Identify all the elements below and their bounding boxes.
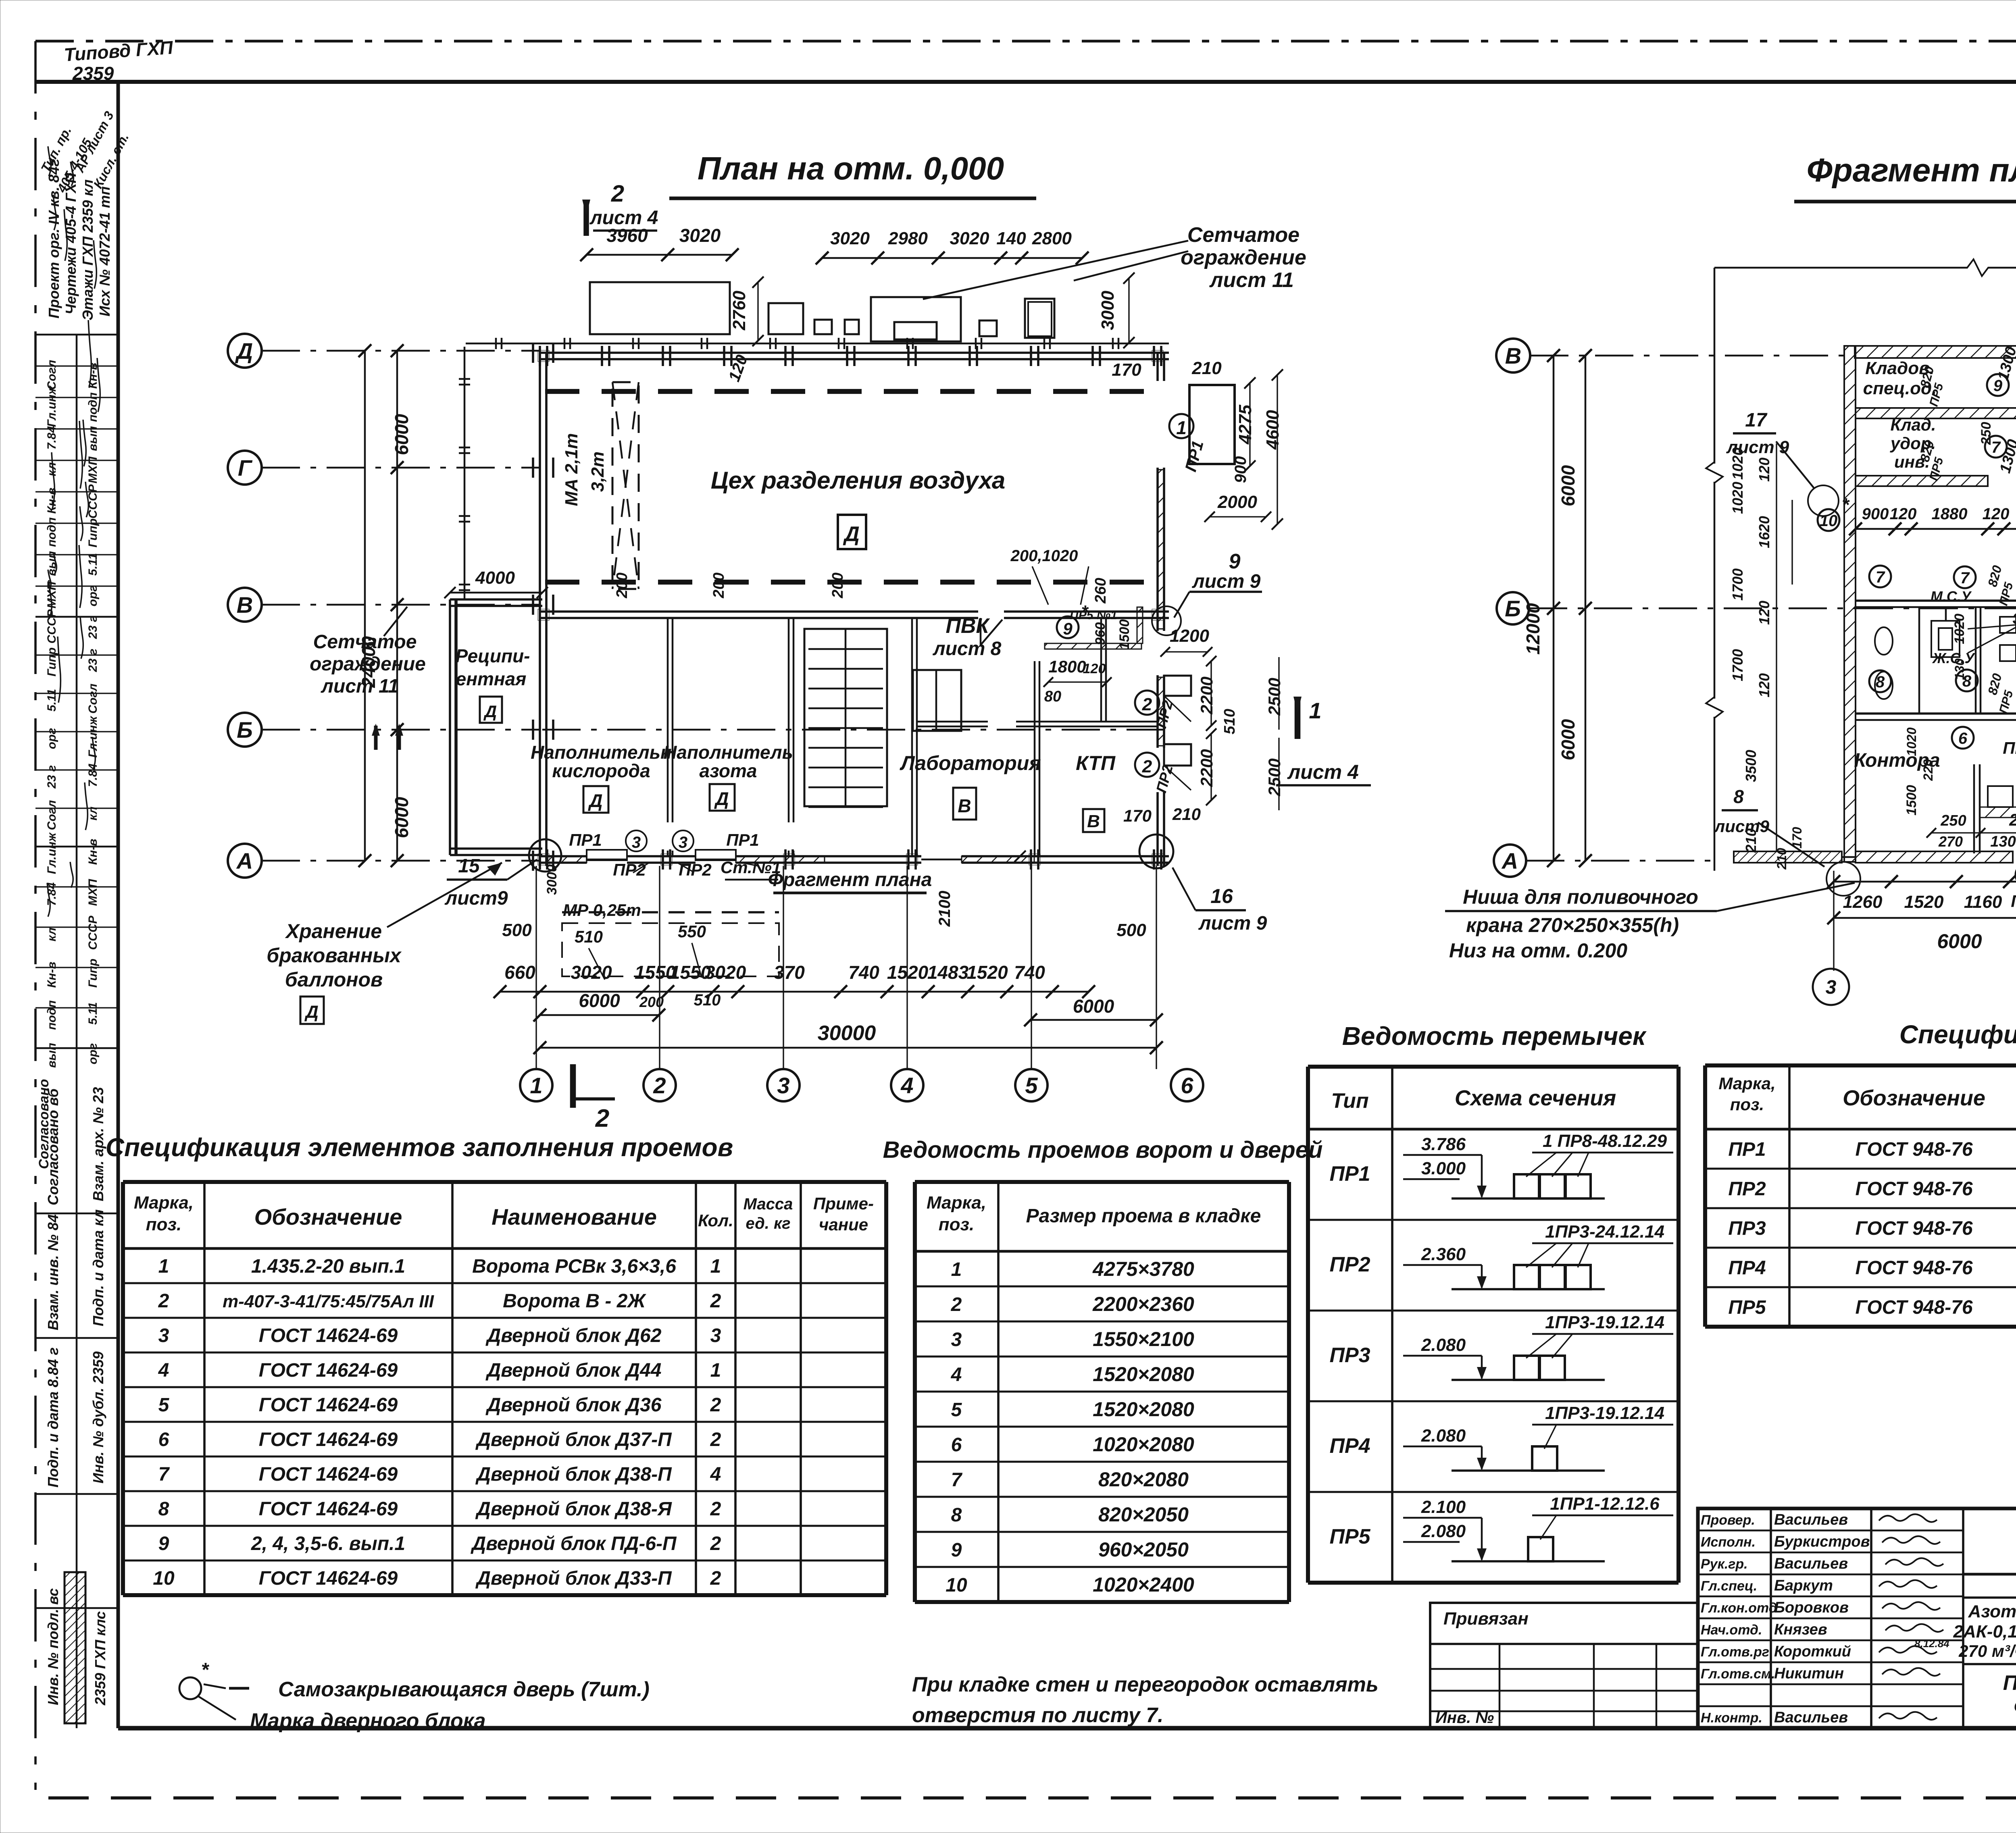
svg-text:СССР: СССР <box>45 609 58 644</box>
svg-text:ГОСТ 948-76: ГОСТ 948-76 <box>1855 1178 1972 1200</box>
svg-text:2980: 2980 <box>888 229 928 248</box>
svg-text:В: В <box>1087 811 1100 831</box>
svg-text:Васильев: Васильев <box>1774 1709 1848 1726</box>
svg-text:Ведомость перемычек: Ведомость перемычек <box>1342 1022 1647 1051</box>
svg-text:ГОСТ 948-76: ГОСТ 948-76 <box>1855 1218 1972 1239</box>
svg-text:210: 210 <box>1172 805 1201 824</box>
svg-text:МХП: МХП <box>86 878 100 906</box>
svg-text:Гипр: Гипр <box>45 647 58 676</box>
svg-text:130: 130 <box>1952 658 1967 680</box>
svg-text:2: 2 <box>710 1429 721 1450</box>
svg-text:ГОСТ 14624-69: ГОСТ 14624-69 <box>259 1568 398 1589</box>
svg-text:6: 6 <box>158 1429 169 1450</box>
svg-text:1200: 1200 <box>1170 626 1209 646</box>
svg-text:Кол.: Кол. <box>698 1211 733 1230</box>
svg-text:2359: 2359 <box>72 63 114 84</box>
svg-text:6000: 6000 <box>1558 719 1579 760</box>
svg-text:подп: подп <box>86 392 100 422</box>
svg-text:вып: вып <box>86 426 100 451</box>
svg-text:1: 1 <box>1176 417 1187 438</box>
svg-text:ПР1: ПР1 <box>1182 439 1207 473</box>
svg-text:ГОСТ 14624-69: ГОСТ 14624-69 <box>259 1464 398 1485</box>
svg-text:1ПР3-19.12.14: 1ПР3-19.12.14 <box>1545 1313 1664 1332</box>
svg-text:Спецификация перемычек: Спецификация перемычек <box>1899 1020 2016 1049</box>
svg-text:Гл.инж: Гл.инж <box>45 832 58 874</box>
svg-text:120: 120 <box>1756 673 1772 697</box>
svg-text:ПР3: ПР3 <box>1329 1344 1370 1367</box>
svg-text:Этажи ГХП 2359 кл: Этажи ГХП 2359 кл <box>79 179 96 320</box>
svg-text:6000: 6000 <box>1073 996 1114 1017</box>
svg-text:2: 2 <box>1142 757 1152 776</box>
svg-text:3000: 3000 <box>1098 291 1118 330</box>
svg-text:8: 8 <box>1876 673 1885 691</box>
svg-text:2200: 2200 <box>1197 676 1216 714</box>
svg-text:Дверной блок Д37-П: Дверной блок Д37-П <box>475 1429 672 1450</box>
svg-text:200: 200 <box>710 572 727 598</box>
svg-text:960: 960 <box>1093 622 1108 645</box>
svg-text:1020×2400: 1020×2400 <box>1093 1573 1194 1596</box>
svg-text:3: 3 <box>1826 977 1837 998</box>
svg-text:200: 200 <box>639 994 664 1010</box>
svg-text:260: 260 <box>1092 578 1109 603</box>
svg-text:ПР4: ПР4 <box>1329 1434 1370 1458</box>
svg-text:2.080: 2.080 <box>1421 1426 1466 1446</box>
svg-text:2: 2 <box>611 181 624 207</box>
svg-text:3: 3 <box>158 1325 169 1346</box>
svg-text:1160: 1160 <box>1964 892 2002 912</box>
svg-text:1880: 1880 <box>1932 505 1968 523</box>
svg-text:16: 16 <box>1210 885 1233 907</box>
svg-text:900: 900 <box>1232 456 1250 483</box>
svg-text:План на отм. 0,000: План на отм. 0,000 <box>698 150 1004 186</box>
svg-text:Г: Г <box>238 455 253 481</box>
svg-text:10: 10 <box>153 1568 175 1589</box>
svg-text:820×2080: 820×2080 <box>1098 1468 1189 1491</box>
svg-text:ПР2: ПР2 <box>613 860 646 879</box>
svg-text:1800: 1800 <box>1048 657 1086 676</box>
svg-text:Клад.: Клад. <box>1891 415 1936 434</box>
svg-text:1500: 1500 <box>1117 619 1132 650</box>
svg-text:Инв. №: Инв. № <box>1435 1709 1494 1727</box>
svg-text:23 г: 23 г <box>45 765 58 789</box>
svg-text:1020×2080: 1020×2080 <box>1093 1433 1194 1456</box>
svg-text:ГОСТ 948-76: ГОСТ 948-76 <box>1855 1297 1972 1318</box>
svg-text:2200: 2200 <box>1197 749 1216 787</box>
svg-text:15: 15 <box>458 855 480 877</box>
svg-text:Н.контр.: Н.контр. <box>1701 1710 1762 1726</box>
svg-text:3.000: 3.000 <box>1421 1159 1466 1178</box>
svg-text:ПР2: ПР2 <box>1728 1178 1766 1200</box>
svg-text:Реципи-: Реципи- <box>456 645 530 666</box>
svg-text:Обозначение: Обозначение <box>254 1204 402 1230</box>
svg-text:Наполнитель: Наполнитель <box>663 742 793 763</box>
svg-text:1ПР3-19.12.14: 1ПР3-19.12.14 <box>1545 1403 1664 1423</box>
svg-text:Дверной блок Д38-П: Дверной блок Д38-П <box>475 1464 672 1485</box>
svg-text:1: 1 <box>530 1073 542 1098</box>
svg-text:подп: подп <box>45 517 58 547</box>
svg-text:2.080: 2.080 <box>1421 1521 1466 1541</box>
svg-text:Марка дверного блока: Марка дверного блока <box>250 1709 486 1733</box>
svg-text:6: 6 <box>1958 730 1968 747</box>
svg-text:3.786: 3.786 <box>1421 1134 1466 1154</box>
svg-text:4275×3780: 4275×3780 <box>1092 1258 1194 1280</box>
svg-text:5.11: 5.11 <box>86 1002 100 1025</box>
svg-text:Кн-в: Кн-в <box>45 488 58 514</box>
svg-text:План на отм. 0,000.: План на отм. 0,000. <box>2003 1671 2016 1695</box>
svg-text:В: В <box>1505 343 1521 368</box>
svg-text:2: 2 <box>710 1533 721 1554</box>
svg-text:Рук.гр.: Рук.гр. <box>1701 1556 1748 1572</box>
svg-text:Дверной блок Д62: Дверной блок Д62 <box>485 1325 662 1346</box>
svg-text:Д: Д <box>587 790 602 811</box>
svg-text:бракованных: бракованных <box>267 944 402 967</box>
svg-text:270 м³/ч азота и 70 м³/ч кисло: 270 м³/ч азота и 70 м³/ч кислорода <box>1958 1642 2016 1660</box>
svg-text:2: 2 <box>158 1290 169 1312</box>
svg-text:Цех разделения воздуха: Цех разделения воздуха <box>711 467 1006 494</box>
svg-text:ПР5: ПР5 <box>1728 1297 1766 1318</box>
svg-text:120: 120 <box>1983 505 2010 523</box>
svg-text:1: 1 <box>1309 698 1321 723</box>
svg-text:200: 200 <box>614 572 631 598</box>
svg-text:2: 2 <box>710 1290 721 1312</box>
svg-text:Сетчатое: Сетчатое <box>1187 223 1300 247</box>
svg-text:Ниша для поливочного: Ниша для поливочного <box>1463 886 1698 908</box>
svg-text:Боровков: Боровков <box>1774 1599 1849 1616</box>
svg-text:*: * <box>1842 494 1850 515</box>
svg-text:Нач.отд.: Нач.отд. <box>1701 1623 1762 1638</box>
svg-text:Масса: Масса <box>744 1195 793 1213</box>
svg-text:1520: 1520 <box>966 962 1008 983</box>
svg-text:вып: вып <box>45 1043 58 1068</box>
svg-text:250: 250 <box>1979 422 1994 445</box>
svg-text:т-407-3-41/75:45/75Ал III: т-407-3-41/75:45/75Ал III <box>223 1292 434 1311</box>
svg-text:поз.: поз. <box>1730 1095 1764 1114</box>
svg-text:лист 11: лист 11 <box>1209 268 1294 292</box>
svg-text:Б: Б <box>237 717 253 743</box>
svg-text:9: 9 <box>1063 619 1073 638</box>
svg-text:Самозакрывающаяся дверь (7шт.: Самозакрывающаяся дверь (7шт.) <box>278 1678 650 1701</box>
svg-text:А: А <box>1501 848 1518 874</box>
svg-text:Согл: Согл <box>86 683 100 714</box>
svg-text:1500: 1500 <box>1904 785 1919 816</box>
svg-text:3020: 3020 <box>830 229 870 248</box>
svg-text:1520: 1520 <box>1904 892 1944 912</box>
svg-text:ГОСТ 14624-69: ГОСТ 14624-69 <box>259 1325 398 1346</box>
svg-text:лист 8: лист 8 <box>933 638 1002 660</box>
svg-text:2000: 2000 <box>1217 492 1257 512</box>
svg-text:6000: 6000 <box>579 990 620 1011</box>
svg-text:2, 4, 3,5-6. вып.1: 2, 4, 3,5-6. вып.1 <box>251 1533 405 1554</box>
svg-text:210: 210 <box>1774 848 1789 870</box>
svg-text:6000: 6000 <box>1558 465 1579 506</box>
svg-text:ограждение: ограждение <box>1181 246 1306 269</box>
svg-text:740: 740 <box>1014 962 1045 983</box>
svg-text:ПР5: ПР5 <box>1329 1525 1370 1548</box>
svg-text:23 г: 23 г <box>86 616 100 639</box>
svg-text:2.100: 2.100 <box>1421 1497 1466 1517</box>
svg-text:Взам. арх. № 23: Взам. арх. № 23 <box>90 1087 106 1201</box>
svg-text:лист 4: лист 4 <box>1287 761 1359 783</box>
svg-text:960×2050: 960×2050 <box>1098 1538 1189 1561</box>
svg-text:140: 140 <box>996 229 1026 248</box>
svg-text:КТП: КТП <box>1076 752 1116 774</box>
svg-text:Наполнительн: Наполнительн <box>531 742 672 763</box>
svg-text:1ПР3-24.12.14: 1ПР3-24.12.14 <box>1545 1222 1664 1242</box>
svg-text:30000: 30000 <box>818 1022 876 1045</box>
svg-text:1: 1 <box>710 1360 721 1381</box>
svg-text:270: 270 <box>1938 833 1963 850</box>
svg-text:7: 7 <box>1876 568 1885 586</box>
svg-text:2359 ГХП клс: 2359 ГХП клс <box>92 1611 108 1706</box>
svg-text:1020: 1020 <box>1904 727 1919 756</box>
svg-text:2: 2 <box>710 1394 721 1416</box>
svg-text:Гл.инж: Гл.инж <box>45 385 58 427</box>
svg-text:ГОСТ 14624-69: ГОСТ 14624-69 <box>259 1360 398 1381</box>
svg-text:4: 4 <box>900 1073 913 1098</box>
svg-text:МР 0,25т: МР 0,25т <box>563 901 641 920</box>
svg-text:Инв. № дубл. 2359: Инв. № дубл. 2359 <box>90 1351 106 1483</box>
svg-text:6000: 6000 <box>391 414 412 455</box>
svg-text:170: 170 <box>1790 827 1804 849</box>
svg-text:2: 2 <box>710 1568 721 1589</box>
svg-text:1520×2080: 1520×2080 <box>1093 1398 1194 1421</box>
svg-text:10: 10 <box>946 1575 967 1596</box>
svg-text:6000: 6000 <box>391 797 412 838</box>
svg-text:4: 4 <box>710 1464 721 1485</box>
svg-text:В: В <box>237 592 253 618</box>
svg-text:ПР2: ПР2 <box>679 860 712 879</box>
svg-text:2.080: 2.080 <box>1421 1335 1466 1355</box>
svg-text:Азотно-кислородная станция: Азотно-кислородная станция <box>1968 1602 2016 1621</box>
svg-text:7: 7 <box>1960 569 1970 587</box>
svg-text:Гипр: Гипр <box>86 959 100 988</box>
svg-text:кл: кл <box>45 927 58 941</box>
svg-text:Д: Д <box>304 1002 319 1022</box>
svg-text:23 г: 23 г <box>86 649 100 672</box>
svg-text:660: 660 <box>504 962 535 983</box>
svg-text:Спецификация элементов запол: Спецификация элементов заполнения проемо… <box>106 1133 733 1162</box>
svg-text:1: 1 <box>951 1259 962 1280</box>
svg-text:1550×2100: 1550×2100 <box>1093 1328 1194 1350</box>
svg-text:1: 1 <box>710 1256 721 1277</box>
svg-text:Схема сечения: Схема сечения <box>1455 1086 1616 1110</box>
svg-text:3500: 3500 <box>1743 750 1759 782</box>
svg-text:120: 120 <box>1756 601 1772 625</box>
svg-text:1700: 1700 <box>1729 568 1746 601</box>
svg-text:ПР1: ПР1 <box>1329 1162 1370 1186</box>
svg-text:Исх № 4072-41 тп: Исх № 4072-41 тп <box>96 186 113 316</box>
svg-text:Кн-в: Кн-в <box>86 839 100 865</box>
svg-text:М.С.У: М.С.У <box>1931 588 1972 605</box>
svg-text:6: 6 <box>1181 1073 1193 1098</box>
svg-text:ГОСТ 14624-69: ГОСТ 14624-69 <box>259 1394 398 1416</box>
svg-text:2.360: 2.360 <box>1421 1244 1466 1264</box>
svg-text:2: 2 <box>653 1073 666 1098</box>
svg-text:7: 7 <box>158 1464 170 1485</box>
svg-text:4: 4 <box>951 1364 962 1386</box>
svg-text:*: * <box>201 1659 210 1681</box>
svg-text:3: 3 <box>632 834 641 851</box>
svg-text:3000: 3000 <box>544 864 560 895</box>
svg-text:азота: азота <box>699 760 757 781</box>
svg-text:ПР2: ПР2 <box>2011 892 2016 911</box>
svg-text:2100: 2100 <box>936 891 954 927</box>
svg-text:подп: подп <box>45 1000 58 1030</box>
svg-text:Короткий: Короткий <box>1774 1643 1851 1660</box>
svg-text:Подп. и дата 8.84 г: Подп. и дата 8.84 г <box>45 1347 61 1488</box>
svg-text:Баркут: Баркут <box>1774 1577 1833 1594</box>
svg-text:ГОСТ 948-76: ГОСТ 948-76 <box>1855 1139 1972 1160</box>
svg-text:1483: 1483 <box>927 962 969 983</box>
svg-text:Лаборатория: Лаборатория <box>900 752 1041 774</box>
svg-text:ПР1: ПР1 <box>726 830 759 849</box>
svg-text:1020: 1020 <box>1729 482 1746 514</box>
svg-text:Тип: Тип <box>1331 1089 1368 1113</box>
svg-text:120: 120 <box>1083 661 1106 676</box>
svg-text:500: 500 <box>1116 920 1146 940</box>
svg-text:Гл.отв.см.: Гл.отв.см. <box>1701 1667 1775 1682</box>
svg-text:Гипр: Гипр <box>86 518 100 547</box>
svg-text:2800: 2800 <box>1032 229 1072 248</box>
svg-text:1: 1 <box>158 1256 169 1277</box>
svg-text:5.11: 5.11 <box>86 553 100 576</box>
svg-text:8: 8 <box>158 1498 169 1520</box>
svg-text:ограждение: ограждение <box>310 653 426 675</box>
svg-text:Марка,: Марка, <box>927 1193 986 1213</box>
svg-text:кислорода: кислорода <box>552 760 650 781</box>
svg-text:1520: 1520 <box>887 962 929 983</box>
svg-text:Марка,: Марка, <box>1718 1074 1775 1093</box>
svg-text:ГОСТ 14624-69: ГОСТ 14624-69 <box>259 1429 398 1450</box>
svg-text:Ворота В - 2Ж: Ворота В - 2Ж <box>503 1290 646 1312</box>
svg-text:7: 7 <box>951 1469 963 1491</box>
svg-text:5: 5 <box>158 1394 170 1416</box>
svg-text:9: 9 <box>1229 550 1241 573</box>
svg-text:510: 510 <box>694 991 721 1009</box>
svg-text:МА 2,1т: МА 2,1т <box>562 433 581 506</box>
svg-text:А: А <box>236 848 253 874</box>
svg-text:6: 6 <box>951 1434 962 1456</box>
svg-text:220: 220 <box>1921 759 1935 781</box>
svg-text:В: В <box>958 795 971 816</box>
svg-text:2760: 2760 <box>729 291 749 331</box>
svg-text:Князев: Князев <box>1774 1621 1827 1638</box>
svg-text:Сетчатое: Сетчатое <box>313 631 417 653</box>
svg-text:80: 80 <box>1044 688 1061 705</box>
svg-text:Кн-в: Кн-в <box>45 962 58 988</box>
svg-text:ПР2: ПР2 <box>1329 1253 1370 1276</box>
svg-text:Фрагмент плана: Фрагмент плана <box>1807 152 2016 189</box>
svg-text:лист 9: лист 9 <box>1192 571 1261 592</box>
svg-text:170: 170 <box>1123 806 1152 825</box>
svg-text:1700: 1700 <box>1729 649 1746 681</box>
svg-text:лист 9: лист 9 <box>1198 913 1267 934</box>
svg-text:Б: Б <box>1505 596 1521 621</box>
svg-text:ПВК: ПВК <box>946 614 990 638</box>
svg-text:Привязан: Привязан <box>1443 1609 1529 1629</box>
svg-text:120: 120 <box>725 353 751 384</box>
svg-text:2200×2360: 2200×2360 <box>1092 1293 1194 1315</box>
svg-text:Д: Д <box>483 702 497 721</box>
svg-text:ГОСТ 14624-69: ГОСТ 14624-69 <box>259 1498 398 1520</box>
svg-text:900: 900 <box>1862 505 1889 523</box>
svg-text:лист9: лист9 <box>444 888 508 909</box>
svg-text:9: 9 <box>951 1540 962 1561</box>
svg-text:3: 3 <box>710 1325 721 1346</box>
svg-text:Никитин: Никитин <box>1774 1665 1844 1682</box>
svg-text:3020: 3020 <box>950 229 989 248</box>
svg-text:Д: Д <box>714 788 729 809</box>
svg-text:3020: 3020 <box>679 225 721 246</box>
svg-text:4600: 4600 <box>1263 410 1283 450</box>
svg-text:орг: орг <box>86 585 100 607</box>
svg-text:ед. кг: ед. кг <box>746 1215 790 1232</box>
svg-text:2: 2 <box>1142 695 1152 714</box>
svg-text:поз.: поз. <box>939 1215 974 1234</box>
svg-text:крана 270×250×355(h): крана 270×250×355(h) <box>1466 914 1679 936</box>
svg-text:740: 740 <box>848 962 879 983</box>
svg-text:1260: 1260 <box>1843 892 1883 912</box>
svg-text:Обозначение: Обозначение <box>1843 1086 1985 1110</box>
svg-text:ПР3: ПР3 <box>1728 1218 1766 1239</box>
svg-text:Дверной блок ПД-6-П: Дверной блок ПД-6-П <box>470 1533 677 1554</box>
svg-text:2500: 2500 <box>1265 678 1284 716</box>
svg-text:Наименование: Наименование <box>492 1204 657 1230</box>
svg-text:Дверной блок Д36: Дверной блок Д36 <box>485 1394 662 1416</box>
svg-text:При кладке стен и перегоро: При кладке стен и перегородок оставлять <box>912 1673 1379 1696</box>
svg-text:510: 510 <box>575 927 603 946</box>
svg-text:Д: Д <box>843 522 860 546</box>
svg-text:1ПР1-12.12.6: 1ПР1-12.12.6 <box>1550 1494 1660 1514</box>
svg-text:1020: 1020 <box>1729 447 1746 480</box>
svg-text:12000: 12000 <box>1522 603 1543 655</box>
svg-text:Дверной блок Д44: Дверной блок Д44 <box>485 1360 662 1381</box>
svg-text:3,2т: 3,2т <box>588 451 608 492</box>
svg-text:4000: 4000 <box>475 568 515 588</box>
svg-text:Гл.инж: Гл.инж <box>86 716 100 758</box>
svg-text:510: 510 <box>1221 709 1238 734</box>
svg-text:Согл: Согл <box>45 360 58 390</box>
svg-text:Гл.кон.отд: Гл.кон.отд <box>1701 1600 1777 1616</box>
svg-text:чание: чание <box>819 1215 868 1234</box>
svg-text:Васильев: Васильев <box>1774 1511 1848 1528</box>
svg-text:ГОСТ 948-76: ГОСТ 948-76 <box>1855 1257 1972 1279</box>
svg-text:17: 17 <box>1745 410 1768 431</box>
svg-text:баллонов: баллонов <box>285 968 383 991</box>
svg-text:1620: 1620 <box>1756 516 1772 548</box>
svg-text:2АК-0,135 производительностью: 2АК-0,135 производительностью <box>1953 1622 2016 1642</box>
svg-text:Инв. № подл. вс: Инв. № подл. вс <box>45 1588 61 1705</box>
svg-text:ПР1: ПР1 <box>569 830 602 849</box>
svg-text:9: 9 <box>158 1533 169 1554</box>
svg-text:5: 5 <box>951 1399 962 1421</box>
svg-text:7.84: 7.84 <box>86 763 100 787</box>
svg-text:Буркистров: Буркистров <box>1774 1533 1870 1550</box>
svg-text:500: 500 <box>502 920 532 940</box>
svg-text:2: 2 <box>951 1294 962 1315</box>
svg-text:лист 11: лист 11 <box>321 676 399 697</box>
svg-text:Исполн.: Исполн. <box>1701 1535 1756 1550</box>
svg-text:130: 130 <box>1990 833 2016 850</box>
svg-text:Дверной блок Д38-Я: Дверной блок Д38-Я <box>475 1498 672 1520</box>
svg-text:Типовд ГХП: Типовд ГХП <box>63 37 174 65</box>
svg-text:Ведомость проемов ворот и двер: Ведомость проемов ворот и дверей <box>883 1137 1323 1163</box>
svg-text:орг: орг <box>86 1043 100 1065</box>
svg-text:отверстия по листу 7.: отверстия по листу 7. <box>912 1704 1163 1727</box>
svg-text:лист9: лист9 <box>1714 817 1769 836</box>
svg-text:2: 2 <box>710 1498 721 1520</box>
svg-text:Хранение: Хранение <box>285 920 382 943</box>
